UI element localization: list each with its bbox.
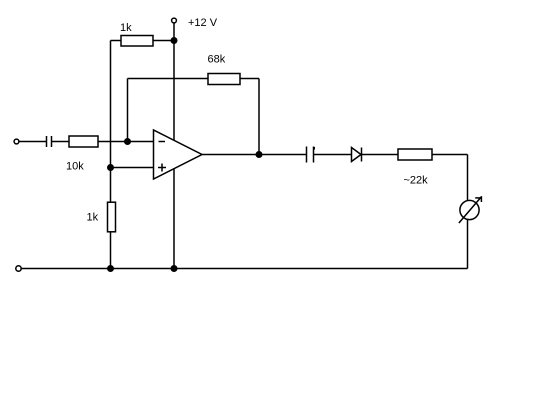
resistor 68k xyxy=(208,74,240,85)
svg-text:+12 V: +12 V xyxy=(188,17,218,29)
resistor 1k vertical xyxy=(108,202,116,232)
wire right vertical down to meter xyxy=(467,155,469,201)
op-amp U1 xyxy=(154,130,203,179)
node inverting input junction xyxy=(124,138,131,145)
wire feedback vertical xyxy=(127,79,129,142)
wire meter to bottom rail xyxy=(467,219,469,268)
resistor ~22k xyxy=(398,149,432,160)
wire 68k to output vertical drop xyxy=(240,78,259,80)
svg-text:1k: 1k xyxy=(120,22,132,34)
wire R22k to right corner xyxy=(432,154,468,156)
wire D1 to R22k xyxy=(362,154,398,156)
svg-text:1k: 1k xyxy=(87,212,99,224)
node non-inverting junction xyxy=(107,164,114,171)
wire C1 to R 10k xyxy=(52,141,69,143)
wire vertical 68k right to output node xyxy=(258,79,260,155)
svg-text:10k: 10k xyxy=(66,161,84,173)
svg-text:68k: 68k xyxy=(208,54,226,66)
wire output to C2 xyxy=(202,154,307,156)
node +12V junction xyxy=(171,37,178,44)
node output junction xyxy=(256,151,263,158)
terminal +12V xyxy=(172,18,177,23)
resistor 1k top xyxy=(121,36,153,47)
wire non-inverting input xyxy=(111,167,154,169)
resistor 10k xyxy=(69,136,98,147)
wire left vertical rail lower xyxy=(110,232,112,269)
svg-text:~22k: ~22k xyxy=(404,175,429,187)
terminal J1 input xyxy=(14,139,19,144)
wire bottom rail xyxy=(22,268,468,270)
wire +12V terminal to node xyxy=(173,23,175,41)
wire feedback horizontal xyxy=(128,78,209,80)
capacitor C2 xyxy=(307,147,316,163)
wire R10k to op-amp inverting input xyxy=(98,141,154,143)
diode D1 xyxy=(352,148,362,162)
wire C2 to D1 xyxy=(314,154,352,156)
wire R1k top to +12V node xyxy=(153,40,174,42)
wire left vertical rail upper xyxy=(110,41,112,203)
node bottom rail supply junction xyxy=(171,265,178,272)
wire left of R1k top xyxy=(111,40,122,42)
meter M1 xyxy=(459,196,482,223)
wire input to C1 xyxy=(19,141,46,143)
node bottom rail left junction xyxy=(107,265,114,272)
terminal J2 bottom xyxy=(16,266,21,271)
capacitor C1 xyxy=(47,136,52,147)
wire supply vertical through op-amp to bottom rail xyxy=(173,41,175,269)
